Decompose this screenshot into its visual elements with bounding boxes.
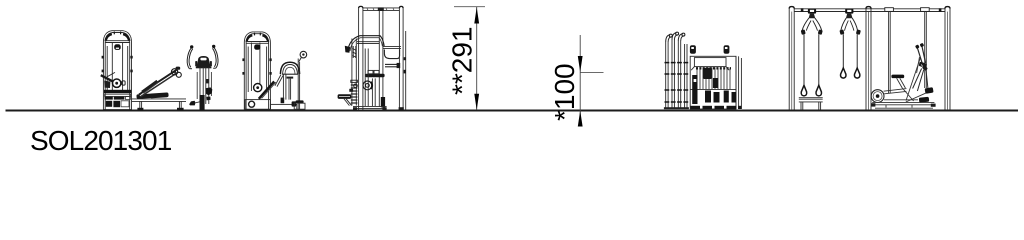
machine C weight pin slot <box>254 44 260 49</box>
frame F top bar <box>794 8 945 12</box>
frame F left post <box>789 7 794 110</box>
svg-text:**291: **291 <box>447 26 478 95</box>
machine C seat supports <box>275 74 293 99</box>
swing hanger 1 bench <box>799 98 823 110</box>
frame F hanging rod 1 <box>888 11 890 93</box>
machine E rib crest teeth <box>696 67 731 69</box>
frame F middle post <box>866 7 871 110</box>
machine B base <box>200 95 205 110</box>
machine C head pad <box>280 62 299 74</box>
machine D mid bar <box>383 46 401 48</box>
machine B console head <box>196 56 210 67</box>
machine D left foot pedal <box>338 94 352 99</box>
machine D rear stack tube <box>405 31 407 110</box>
dimension **291 extension line (top) <box>454 6 485 8</box>
machine A weight stack <box>103 94 131 109</box>
machine B horn tip knobs <box>190 45 193 48</box>
dimension *100 arrow upper (points down to y=72) <box>578 56 583 72</box>
machine D arm bar <box>385 63 400 65</box>
machine C base <box>245 100 297 110</box>
svg-text:SOL201301: SOL201301 <box>30 125 172 156</box>
machine E hook tips <box>669 34 672 37</box>
elliptical pivot cluster <box>919 62 928 69</box>
machine D seat pad <box>365 74 384 77</box>
machine D pulley <box>363 81 372 90</box>
dimension **291 line <box>476 7 478 110</box>
machine E tube ticks <box>665 63 689 102</box>
machine A pin-loaded tower <box>103 31 131 110</box>
machine A side tabs <box>102 56 133 72</box>
frame F rod clamp 2 <box>921 8 930 12</box>
elliptical base feet <box>871 103 875 106</box>
dimension *100 extension line <box>580 71 604 73</box>
swing hanger 2 ropes <box>842 34 844 68</box>
machine C pulley <box>254 84 262 92</box>
machine D base <box>353 106 404 109</box>
machine B column <box>197 67 211 104</box>
machine D seat pan <box>384 50 399 59</box>
machine B pedals <box>189 101 195 106</box>
machine E base bar <box>691 106 742 109</box>
frame F hanging rod 2 <box>924 11 926 88</box>
machine B upright trainer left horn <box>187 47 218 69</box>
machine E ribs <box>697 67 730 89</box>
swing hanger 2 handles <box>841 68 846 78</box>
machine A weight pin slot <box>114 44 121 50</box>
swing hanger 1 strap neck and wishbone <box>809 14 816 19</box>
elliptical seat <box>891 75 904 79</box>
swing hanger 1 handles <box>801 85 806 96</box>
machine A backrest diagonal <box>139 70 178 97</box>
machine D central column <box>379 11 383 107</box>
swing hanger 2 clamp <box>845 9 853 14</box>
machine E lower dark cluster <box>692 75 697 104</box>
dimension **291 arrow top <box>474 7 479 23</box>
elliptical flywheel <box>871 90 884 103</box>
frame F right post <box>945 7 950 110</box>
swing hanger 1 ropes <box>803 34 805 85</box>
dimension **291 arrow bottom <box>474 94 479 110</box>
swing hanger 1 leg clamps <box>801 29 806 34</box>
machine D weight stack <box>351 39 358 106</box>
elliptical arm bars <box>913 46 928 91</box>
machine E center pads <box>703 68 712 79</box>
elliptical arm grips <box>915 44 920 49</box>
swing hanger 2 leg clamps <box>839 29 844 34</box>
machine E top pads <box>690 45 696 54</box>
machine C rear post <box>297 59 299 110</box>
ground line <box>6 110 1019 112</box>
swing hanger 1 clamp <box>808 9 816 14</box>
elliptical frame tubes <box>872 58 934 108</box>
machine C adjustment knob <box>300 51 307 58</box>
frame F rod clamp 1 <box>885 8 894 12</box>
machine E hook tubes <box>666 33 687 109</box>
svg-text:*100: *100 <box>549 63 580 121</box>
machine C T-foot <box>281 98 285 104</box>
machine A pulley assembly <box>101 72 125 88</box>
dimension *100 line <box>579 35 581 125</box>
dimension *100 arrow lower (points up to ground) <box>578 111 583 127</box>
machine A backrest rollers <box>172 67 182 78</box>
machine A bench pads <box>136 92 183 110</box>
machine A dark band <box>104 90 131 93</box>
machine D frame posts <box>359 6 404 109</box>
machine E main box <box>690 56 741 109</box>
swing hanger 2 strap neck and wishbone <box>846 14 853 19</box>
machine D curved press handle <box>345 36 384 58</box>
elliptical pedals <box>919 97 929 103</box>
machine D lower dark slab <box>381 97 385 107</box>
machine C pin-loaded tower <box>244 32 270 110</box>
machine C side tabs <box>242 58 271 74</box>
machine A bench rail <box>132 99 187 110</box>
machine D top crossbar <box>363 7 400 11</box>
machine C press arm diagonal <box>259 82 274 99</box>
